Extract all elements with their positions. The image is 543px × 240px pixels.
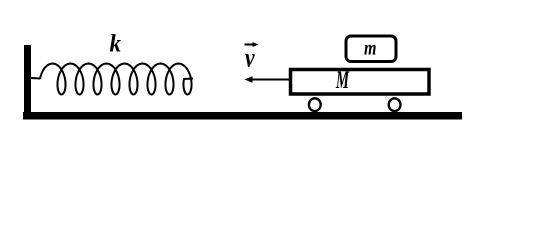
vector bar arrowhead (253, 42, 259, 47)
wheel right (389, 98, 401, 111)
vector bar over v (245, 44, 255, 46)
svg-text:k: k (110, 31, 122, 58)
svg-text:v: v (245, 43, 255, 73)
ground (23, 112, 462, 120)
velocity arrow wire (248, 79, 291, 81)
velocity arrowhead (245, 76, 253, 82)
wheel left (309, 98, 321, 111)
spring k (31, 64, 193, 95)
wall (24, 45, 31, 119)
svg-text:M: M (335, 67, 349, 94)
svg-text:m: m (364, 36, 377, 60)
block m (346, 36, 396, 62)
cart M body (291, 70, 430, 95)
